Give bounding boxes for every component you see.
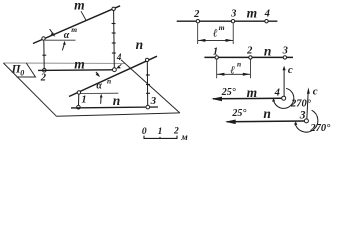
svg-text:m: m	[247, 6, 258, 21]
circle point on m right	[112, 7, 115, 10]
north arrow c at 3	[307, 94, 308, 120]
svg-text:α: α	[64, 30, 70, 41]
small up arrow for alpha-m	[62, 44, 64, 50]
point 1 circle	[77, 105, 81, 109]
circle point on m left	[42, 37, 45, 40]
svg-text:c: c	[313, 86, 318, 98]
svg-text:n: n	[264, 44, 272, 59]
svg-text:25°: 25°	[221, 87, 236, 98]
svg-text:4: 4	[116, 52, 122, 62]
svg-text:3: 3	[282, 46, 288, 57]
svg-text:4: 4	[264, 9, 270, 20]
svg-text:3: 3	[230, 9, 236, 20]
svg-text:2: 2	[40, 73, 47, 84]
svg-text:м: м	[180, 133, 188, 143]
point 1 on graded n	[215, 56, 218, 59]
svg-text:2: 2	[193, 9, 200, 20]
dimension line l-m	[198, 39, 233, 41]
svg-text:n: n	[113, 93, 121, 108]
horizontal ref line at m left point	[45, 39, 76, 41]
ticks on connector 4	[112, 23, 116, 25]
svg-text:2: 2	[173, 127, 179, 137]
svg-text:25°: 25°	[231, 108, 246, 119]
svg-text:m: m	[219, 23, 225, 32]
П0 corner label box	[17, 63, 36, 77]
svg-text:3: 3	[150, 95, 157, 107]
line n (spatial)	[69, 56, 157, 96]
svg-text:4: 4	[274, 88, 280, 99]
direction line m	[213, 97, 282, 100]
point 2 on graded n	[249, 56, 252, 59]
dimension line l-n	[217, 73, 250, 75]
svg-text:m: m	[247, 85, 258, 100]
n horizontal projection line	[71, 106, 158, 109]
plane П0 left edge	[3, 63, 56, 116]
circle point on n right	[145, 58, 148, 61]
point 3 on graded n	[283, 56, 286, 59]
connector point2 vertical	[43, 40, 45, 69]
svg-text:n: n	[107, 77, 111, 86]
connector point1 vertical	[78, 94, 80, 106]
svg-text:1: 1	[213, 46, 218, 57]
arrow onto line m	[50, 29, 53, 33]
graded projection line m	[177, 20, 278, 22]
line m (spatial)	[33, 6, 120, 44]
svg-text:270°: 270°	[309, 123, 331, 134]
svg-text:ℓ: ℓ	[213, 27, 218, 39]
svg-text:0: 0	[20, 69, 24, 78]
svg-text:m: m	[74, 0, 85, 13]
svg-text:ℓ: ℓ	[230, 64, 235, 76]
graded projection line n	[204, 56, 293, 58]
point 3 direction circle	[304, 119, 308, 123]
svg-text:2: 2	[246, 46, 253, 57]
connector point3 vertical	[146, 62, 148, 106]
small up arrow for alpha-n	[100, 97, 102, 104]
270 deg arc at 4	[274, 88, 294, 108]
270 deg arc at 3	[295, 110, 318, 132]
point 4 circle	[113, 68, 117, 72]
point 4 on graded m	[265, 20, 268, 23]
svg-text:n: n	[136, 37, 144, 52]
point 2 on graded m	[196, 20, 199, 23]
dim extension lines for l-n	[216, 60, 218, 79]
north arrow c at 4	[283, 69, 285, 97]
svg-text:1: 1	[158, 127, 163, 137]
plane П0 bottom edge	[57, 113, 180, 116]
floating arrow onto line n	[96, 72, 98, 74]
circle point on n left	[77, 91, 80, 94]
point 3 circle	[146, 105, 150, 109]
m horizontal projection line	[38, 69, 113, 72]
point 3 on graded m	[231, 20, 234, 23]
svg-text:m: m	[71, 25, 77, 34]
dim extension lines for l-m	[197, 24, 199, 45]
svg-text:n: n	[237, 59, 241, 68]
svg-text:270°: 270°	[290, 98, 312, 109]
arrow onto point 4	[120, 64, 122, 66]
tick on connector 2	[42, 54, 46, 56]
plane П0 parallelogram top edge	[3, 62, 125, 64]
direction line n	[227, 120, 305, 123]
point 4 direction circle	[282, 96, 286, 100]
svg-text:0: 0	[142, 127, 147, 137]
horizontal ref line at n left point	[80, 92, 118, 94]
svg-text:α: α	[96, 81, 102, 92]
ticks on connector 3	[146, 74, 150, 76]
point 2 circle	[43, 69, 47, 73]
svg-text:m: m	[74, 57, 85, 72]
plane П0 right edge	[121, 60, 180, 113]
svg-text:1: 1	[81, 95, 86, 106]
svg-text:c: c	[288, 64, 293, 76]
scale bar	[144, 136, 177, 139]
svg-text:n: n	[263, 106, 271, 121]
connector point4 vertical	[113, 11, 116, 68]
